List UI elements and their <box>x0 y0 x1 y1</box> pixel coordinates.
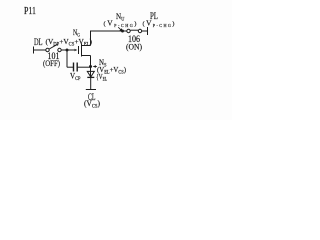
EL element V_EL <box>90 67 92 78</box>
svg-text:P11: P11 <box>24 6 36 17</box>
terminal CL <box>86 89 96 91</box>
terminal PL <box>147 27 149 35</box>
wire drain <box>91 31 123 46</box>
node N_U <box>121 30 124 33</box>
svg-text:(ON): (ON) <box>126 42 142 52</box>
wire source <box>90 56 92 67</box>
switch 101 (OFF) <box>46 48 49 51</box>
terminal DL <box>33 47 35 54</box>
capacitor V_CP <box>66 50 68 67</box>
svg-text:(OFF): (OFF) <box>43 58 60 68</box>
node junction <box>66 49 69 52</box>
transistor <box>78 46 80 54</box>
wire <box>90 77 92 89</box>
node N_S <box>89 65 92 68</box>
wire <box>34 49 46 51</box>
node N_G <box>74 49 77 51</box>
wire <box>61 49 74 51</box>
switch 106 (ON) <box>124 30 127 32</box>
svg-text:DL: DL <box>34 37 43 47</box>
